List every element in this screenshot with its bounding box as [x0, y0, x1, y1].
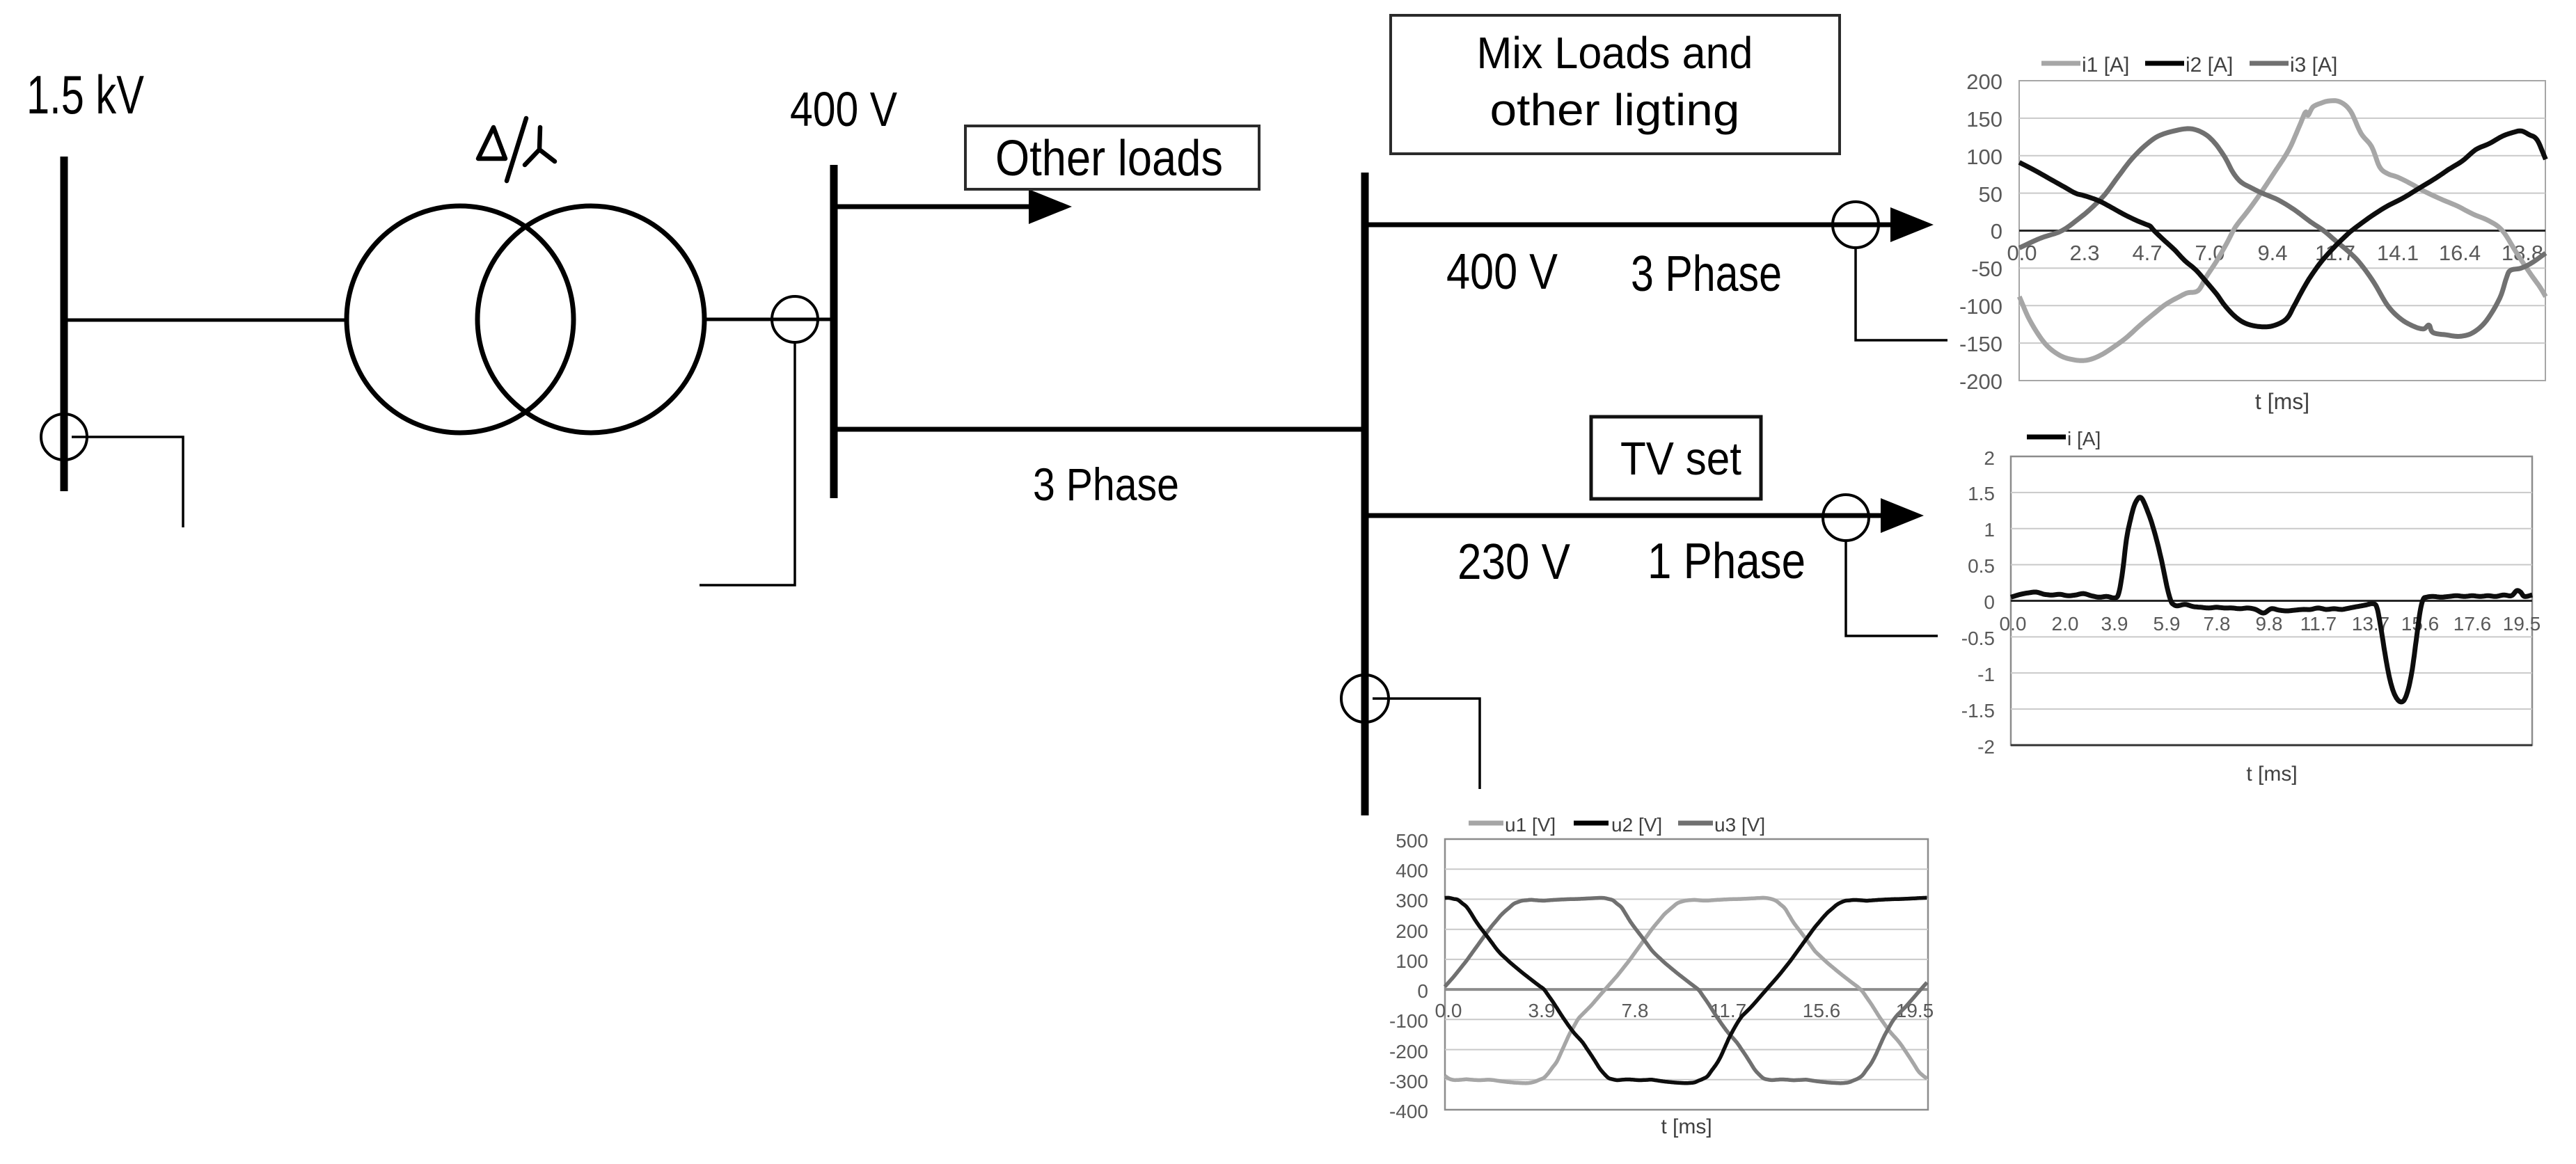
arrowhead 400V feeder: [1890, 207, 1934, 242]
svg-text:t [ms]: t [ms]: [2255, 389, 2309, 414]
box TV set: [1591, 417, 1761, 499]
chart3 x-axis tick labels: [1435, 1000, 1934, 1021]
svg-text:u1 [V]: u1 [V]: [1505, 814, 1556, 836]
chart1 curve i3: [2019, 129, 2545, 337]
chart1 plot border: [2019, 81, 2545, 381]
meter circle M5 on distribution busbar: [1341, 675, 1389, 722]
svg-text:14.1: 14.1: [2377, 241, 2419, 265]
svg-text:Mix Loads and: Mix Loads and: [1477, 28, 1753, 78]
svg-text:9.4: 9.4: [2257, 241, 2287, 265]
svg-text:400: 400: [1396, 860, 1428, 882]
meter circle M2 on transformer secondary: [772, 296, 818, 342]
chart1 zero axis: [2019, 230, 2545, 232]
svg-text:7.8: 7.8: [1622, 1000, 1649, 1021]
wire other-loads feeder: [834, 205, 1033, 209]
chart2 legend i: [2027, 435, 2066, 440]
svg-text:u2 [V]: u2 [V]: [1611, 814, 1662, 836]
chart3 curve u1: [1445, 898, 1927, 1083]
chart2 gridlines: [2011, 493, 2532, 709]
svg-text:7.8: 7.8: [2204, 613, 2231, 635]
chart3 legend u1: [1469, 821, 1503, 826]
chart2 bottom axis: [2011, 744, 2532, 747]
svg-text:17.6: 17.6: [2453, 613, 2492, 635]
chart2 zero axis: [2011, 600, 2532, 602]
svg-text:5.9: 5.9: [2154, 613, 2181, 635]
meter circle M1 on 1.5kV busbar: [41, 414, 87, 460]
svg-text:Other loads: Other loads: [995, 131, 1223, 186]
svg-text:-150: -150: [1959, 332, 2002, 356]
chart2 curve i: [2011, 497, 2532, 702]
svg-text:-50: -50: [1971, 257, 2002, 281]
svg-text:2: 2: [1984, 447, 1995, 469]
svg-text:150: 150: [1966, 107, 2002, 131]
meter M3 tap wire: [1856, 248, 1947, 340]
busbar distribution: [1361, 173, 1369, 815]
svg-text:-100: -100: [1959, 294, 2002, 319]
arrowhead 230V feeder: [1881, 498, 1924, 533]
chart1 y-axis tick labels: [1959, 70, 2002, 394]
svg-text:100: 100: [1396, 950, 1428, 972]
svg-text:11.7: 11.7: [2300, 613, 2337, 635]
meter M2 tap wire: [700, 342, 795, 585]
svg-text:-200: -200: [1959, 369, 2002, 394]
chart2 x-axis tick labels: [2000, 613, 2541, 635]
chart2 plot border: [2011, 456, 2532, 745]
svg-text:2.3: 2.3: [2069, 241, 2099, 265]
svg-text:19.5: 19.5: [2503, 613, 2541, 635]
chart3 gridlines: [1445, 869, 1928, 1080]
svg-text:4.7: 4.7: [2132, 241, 2162, 265]
svg-text:1.5 kV: 1.5 kV: [26, 64, 144, 125]
box Other loads: [965, 126, 1259, 189]
svg-text:i2 [A]: i2 [A]: [2186, 54, 2233, 77]
meter circle M3: [1833, 202, 1879, 248]
svg-text:-2: -2: [1977, 736, 1995, 758]
svg-text:u3 [V]: u3 [V]: [1714, 814, 1765, 836]
chart3 legend u2: [1574, 821, 1609, 826]
svg-text:0.0: 0.0: [1435, 1000, 1462, 1021]
svg-text:t [ms]: t [ms]: [2246, 763, 2297, 786]
svg-text:3 Phase: 3 Phase: [1631, 246, 1782, 302]
svg-text:-300: -300: [1389, 1071, 1428, 1092]
svg-text:i [A]: i [A]: [2067, 428, 2101, 449]
chart3 curve u3: [1445, 898, 1927, 1083]
svg-text:230 V: 230 V: [1457, 534, 1570, 590]
svg-text:400 V: 400 V: [1446, 244, 1558, 300]
svg-text:500: 500: [1396, 830, 1428, 852]
wire transformer to 400V busbar: [704, 318, 834, 321]
svg-text:1: 1: [1984, 519, 1995, 541]
svg-text:9.8: 9.8: [2256, 613, 2283, 635]
svg-text:i3 [A]: i3 [A]: [2290, 54, 2337, 77]
chart1 legend i2: [2145, 61, 2184, 66]
chart3 y-axis tick labels: [1389, 830, 1428, 1122]
svg-text:400 V: 400 V: [790, 82, 897, 136]
svg-text:16.4: 16.4: [2439, 241, 2481, 265]
chart1 curve i2: [2019, 131, 2545, 327]
svg-text:0: 0: [1984, 591, 1995, 613]
wire 3 Phase feeder to second busbar: [834, 427, 1365, 432]
svg-text:i1 [A]: i1 [A]: [2082, 54, 2129, 77]
meter M1 tap wire: [72, 437, 183, 527]
svg-text:TV set: TV set: [1620, 433, 1741, 485]
svg-text:15.6: 15.6: [1803, 1000, 1841, 1021]
svg-text:-0.5: -0.5: [1961, 628, 1995, 649]
chart2 y-axis tick labels: [1961, 447, 1995, 758]
chart1 legend i3: [2250, 61, 2289, 66]
meter M5 tap wire: [1373, 699, 1480, 789]
busbar 1.5 kV: [61, 157, 68, 491]
wire bus1 to transformer: [64, 319, 348, 322]
svg-text:200: 200: [1966, 70, 2002, 94]
svg-text:100: 100: [1966, 145, 2002, 169]
busbar 400 V: [830, 165, 838, 498]
svg-text:1.5: 1.5: [1968, 483, 1995, 504]
svg-text:0: 0: [1417, 980, 1428, 1002]
chart3 plot border: [1445, 839, 1928, 1110]
transformer vector group Δ/⅄ label: [478, 118, 555, 181]
meter M4 tap wire: [1846, 541, 1938, 636]
svg-text:3.9: 3.9: [1528, 1000, 1556, 1021]
svg-text:200: 200: [1396, 920, 1428, 942]
chart1 x-axis tick labels: [2007, 241, 2543, 265]
svg-text:13.7: 13.7: [2352, 613, 2390, 635]
svg-text:0.0: 0.0: [2000, 613, 2027, 635]
box Mix Loads and other ligting: [1391, 15, 1840, 154]
chart1 legend i1: [2041, 61, 2080, 66]
svg-text:0.5: 0.5: [1968, 555, 1995, 577]
chart1 curve i1: [2019, 101, 2545, 361]
wire 230V 1-phase feeder: [1365, 513, 1882, 518]
chart3 curve u2: [1445, 898, 1927, 1083]
wire 400V 3-phase feeder: [1365, 223, 1892, 228]
svg-text:1 Phase: 1 Phase: [1647, 534, 1805, 589]
svg-text:-1: -1: [1977, 664, 1995, 685]
transformer T1: [347, 206, 704, 433]
svg-text:-100: -100: [1389, 1010, 1428, 1032]
chart1 gridlines: [2019, 118, 2545, 343]
svg-text:0: 0: [1991, 219, 2002, 244]
svg-text:3.9: 3.9: [2101, 613, 2128, 635]
svg-text:other ligting: other ligting: [1490, 85, 1740, 135]
svg-text:-1.5: -1.5: [1961, 700, 1995, 721]
chart3 legend u3: [1678, 821, 1713, 826]
svg-text:t [ms]: t [ms]: [1661, 1115, 1712, 1138]
chart3 zero axis: [1445, 988, 1928, 991]
svg-text:3 Phase: 3 Phase: [1033, 459, 1179, 510]
svg-text:-400: -400: [1389, 1101, 1428, 1122]
meter circle M4: [1823, 495, 1869, 541]
svg-text:2.0: 2.0: [2052, 613, 2079, 635]
arrowhead other-loads: [1029, 189, 1072, 224]
svg-text:300: 300: [1396, 890, 1428, 911]
svg-text:50: 50: [1979, 182, 2002, 207]
svg-text:-200: -200: [1389, 1041, 1428, 1062]
